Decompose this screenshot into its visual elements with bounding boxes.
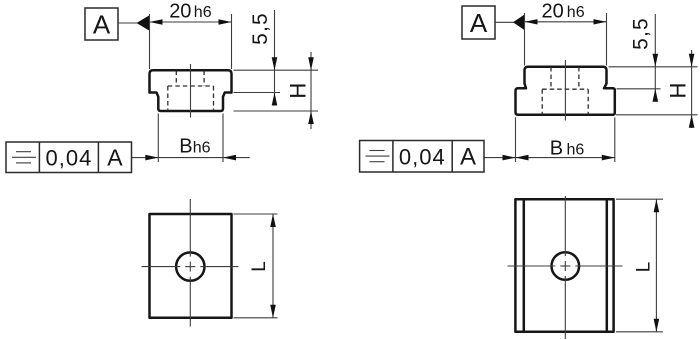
hidden tapped hole upper (dashed) left — [175, 71, 177, 87]
top edge extension to right, right figure — [609, 66, 698, 68]
svg-text:20: 20 — [542, 0, 564, 22]
hidden counterbore (dashed) left — [168, 85, 214, 87]
svg-text:0,04: 0,04 — [45, 146, 92, 171]
dimension L left — [272, 214, 274, 318]
svg-text:L: L — [634, 262, 655, 273]
extension line left of 20h6 — [149, 14, 151, 69]
centerline horizontal plan left — [142, 266, 181, 268]
datum box A left — [85, 8, 118, 40]
centerline vertical plan left — [189, 199, 191, 257]
svg-text:20: 20 — [169, 1, 191, 23]
extension line right of 20h6 — [231, 14, 233, 69]
svg-text:0,04: 0,04 — [399, 145, 446, 170]
dimension line 20h6 left figure — [150, 21, 232, 23]
datum box A right — [462, 6, 495, 39]
svg-text:h6: h6 — [194, 4, 212, 21]
plan view rectangle right — [515, 199, 613, 332]
svg-text:H: H — [666, 83, 691, 99]
datum triangle left — [137, 15, 150, 31]
centerline front view left — [190, 64, 192, 118]
parallelism symbol right — [370, 150, 385, 152]
dimension line Bh6 right (inside arrows) — [516, 157, 615, 159]
extension lines Bh6 left — [157, 114, 159, 163]
extension lines L right — [616, 198, 663, 200]
extension lines Bh6 right — [515, 117, 517, 162]
centerline horizontal plan right — [508, 265, 556, 267]
svg-text:B: B — [550, 138, 563, 160]
leader from tolerance frame to Bh6 right — [484, 157, 516, 159]
step edge lines in plan right — [523, 199, 526, 332]
svg-text:A: A — [470, 8, 488, 38]
tolerance frame right — [360, 141, 484, 173]
hidden tapped hole upper (dashed) right — [550, 67, 552, 89]
datum leader left — [118, 22, 138, 24]
centerline front view right — [564, 60, 566, 121]
bottom edge extension, left figure — [234, 110, 319, 112]
hole circle left — [176, 252, 204, 280]
dimension 5,5 left — [274, 10, 276, 105]
svg-text:h6: h6 — [567, 141, 585, 158]
dimension 5,5 right — [654, 14, 656, 101]
svg-text:h6: h6 — [193, 139, 211, 156]
svg-text:A: A — [107, 144, 123, 170]
svg-text:L: L — [249, 261, 270, 272]
svg-text:h6: h6 — [567, 4, 585, 21]
tolerance frame left — [6, 142, 132, 173]
dimension line 20h6 right figure — [525, 21, 607, 23]
parallelism symbol left — [16, 151, 31, 153]
extension line left of 20h6 right — [524, 13, 526, 66]
svg-text:5,5: 5,5 — [630, 17, 653, 50]
dimension L right — [655, 199, 657, 332]
dimension line Bh6 left (outside arrows) — [132, 157, 224, 159]
bottom edge extension, right figure — [616, 114, 698, 116]
part outline left (front view) — [150, 70, 232, 111]
part outline right (front view) — [516, 67, 615, 115]
extension line right of 20h6 right — [606, 13, 608, 66]
datum leader right — [495, 21, 514, 23]
svg-text:B: B — [179, 136, 192, 158]
step edge extension, left figure — [234, 92, 281, 94]
svg-text:H: H — [286, 83, 311, 99]
step edge extension, right figure — [617, 88, 661, 90]
svg-text:A: A — [93, 10, 111, 40]
hidden counterbore (dashed) right — [542, 88, 588, 90]
extension lines L left — [234, 213, 278, 215]
plan view rectangle left — [150, 214, 232, 318]
dimension H left — [310, 52, 312, 129]
centerline vertical plan right — [564, 196, 566, 256]
top edge extension to right, left figure — [234, 69, 319, 71]
dimension H right — [691, 50, 693, 128]
hole circle right — [552, 252, 580, 280]
svg-text:A: A — [460, 144, 476, 171]
svg-text:5,5: 5,5 — [249, 12, 272, 45]
datum triangle right — [513, 15, 525, 31]
